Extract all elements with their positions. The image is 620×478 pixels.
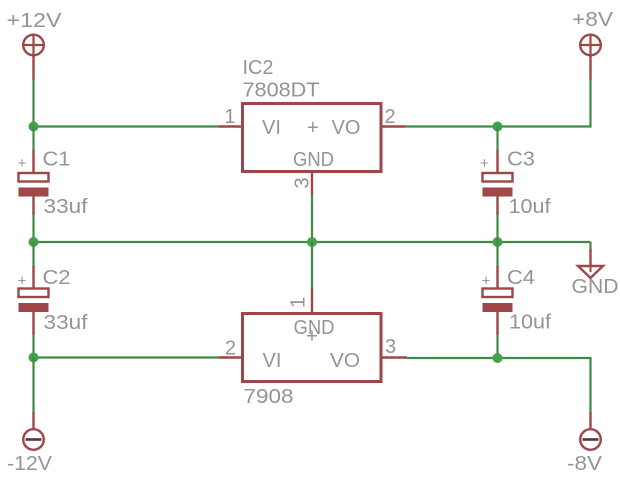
svg-text:VO: VO [330,350,360,372]
svg-text:1: 1 [288,297,310,308]
wire mid bus [34,241,591,243]
svg-text:C1: C1 [43,149,71,171]
svg-text:10uf: 10uf [509,196,551,218]
svg-text:+8V: +8V [572,9,614,31]
label IC2 [243,57,274,79]
svg-text:C3: C3 [507,149,535,171]
wire top-left node to IC2 pin 1 [34,125,220,127]
7908 pin 1 number [288,297,310,308]
svg-text:1: 1 [224,106,235,128]
wire C4 to bottom-right node [496,335,498,358]
junction top-right [493,122,503,132]
svg-text:VI: VI [262,117,281,139]
svg-text:C4: C4 [507,267,535,289]
label C4 [507,267,535,289]
net label +12V [7,10,63,32]
svg-text:+: + [480,155,489,172]
svg-text:3: 3 [292,177,314,188]
net label -8V [567,453,603,475]
wire node to C3 [496,127,498,152]
wire mid bus to C2 [32,242,34,267]
value 33uf (C1) [44,196,88,218]
svg-text:2: 2 [225,338,236,360]
svg-text:2: 2 [385,106,396,128]
svg-text:VO: VO [332,117,361,139]
IC2 pin 1 number [224,106,235,128]
wire C2 to bottom-left node [32,335,34,358]
wire C1 to mid bus [32,215,34,242]
svg-text:-12V: -12V [7,453,53,475]
svg-text:33uf: 33uf [44,312,88,334]
value 33uf (C2) [44,312,88,334]
wire bottom-left node to 7908 pin 2 [34,356,220,358]
label C3 [507,149,535,171]
wire +12V down to node at top-left [32,80,34,127]
wire mid bus to C4 [496,242,498,267]
net label GND [572,276,619,298]
supply symbol -12V [23,412,44,450]
junction mid-center [307,237,317,247]
svg-text:+: + [307,117,319,139]
ground symbol GND [578,249,603,278]
svg-text:7908: 7908 [244,386,294,408]
svg-text:+12V: +12V [7,10,63,32]
regulator 7908 body [243,314,382,382]
capacitor C1 [18,150,49,215]
value 10uf (C3) [509,196,551,218]
svg-text:7808DT: 7808DT [243,80,320,102]
IC2 pin 2 stub [381,125,405,127]
svg-text:-8V: -8V [567,453,603,475]
IC2 pin 2 number [385,106,396,128]
wire bottom-left node to -12V [32,358,34,414]
svg-text:10uf: 10uf [509,312,551,334]
7908 pin 3 number [385,336,396,358]
wire mid bus to 7908 pin 1 [311,242,313,289]
junction bottom-right [493,353,503,363]
7908 pin 2 stub [219,356,243,358]
wire IC2 pin 3 to mid bus [311,195,313,242]
junction top-left [29,122,39,132]
svg-text:33uf: 33uf [44,196,88,218]
svg-text:+: + [482,273,491,290]
svg-text:3: 3 [385,336,396,358]
IC2 pin 3 number [292,177,314,188]
supply symbol -8V [580,412,601,450]
7908 pin 3 stub [381,356,407,358]
svg-text:+: + [18,155,27,172]
wire C3 to mid bus [496,215,498,242]
wire node to C1 [32,127,34,152]
value 7908 [244,386,294,408]
7908 pin 2 number [225,338,236,360]
svg-text:GND: GND [293,149,334,171]
net label -12V [7,453,53,475]
supply symbol +12V [22,34,45,80]
value 10uf (C4) [509,312,551,334]
svg-text:C2: C2 [43,267,71,289]
junction bottom-left [29,353,39,363]
capacitor C4 [482,266,513,335]
IC2 pin 1 stub [219,125,243,127]
net label +8V [572,9,614,31]
junction mid-left [29,237,39,247]
svg-text:VI: VI [263,350,282,372]
IC2 pin 3 stub [311,172,313,196]
wire 7908 pin 3 to -8V corner [407,358,591,413]
svg-text:+: + [306,326,318,348]
value 7808DT [243,80,320,102]
svg-text:+: + [18,273,27,290]
wire +8V down and left to C3 node [405,80,591,127]
label C2 [43,267,71,289]
svg-text:IC2: IC2 [243,57,274,79]
regulator IC2 7808DT body [243,104,382,172]
label C1 [43,149,71,171]
svg-text:GND: GND [572,276,619,298]
wire bus corner to GND [589,242,591,251]
7908 pin 1 stub [311,289,313,314]
capacitor C3 [480,150,512,215]
capacitor C2 [18,266,49,335]
supply symbol +8V [579,34,602,80]
junction mid-right [493,237,503,247]
